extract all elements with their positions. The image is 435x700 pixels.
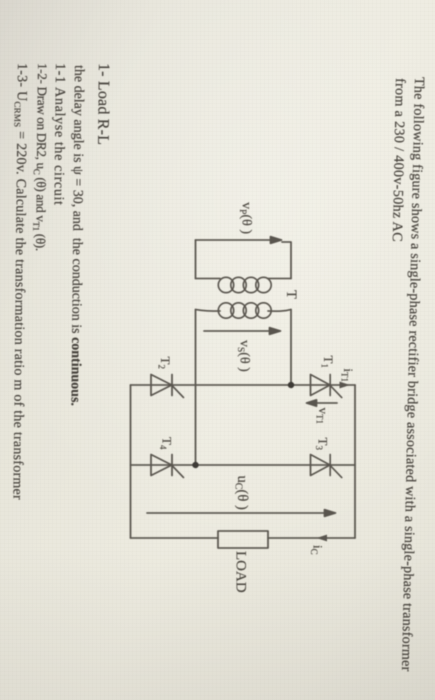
- wire bridge left leg: [131, 384, 356, 386]
- secondary winding vertical wire: [268, 310, 291, 312]
- wire primary top: [282, 242, 291, 279]
- wire bridge bottom rail: [130, 385, 132, 538]
- svg-text:T: T: [283, 290, 299, 299]
- item 1-1: [51, 63, 67, 206]
- svg-text:uC(θ ): uC(θ ): [233, 476, 251, 510]
- arrow ic: [317, 535, 328, 542]
- arrow vT1: [307, 400, 338, 406]
- item 1-2: [34, 63, 51, 251]
- resistor LOAD box: [218, 531, 268, 548]
- wire bridge middle leg: [131, 464, 356, 466]
- arrow iT1: [340, 382, 351, 389]
- wire secondary bottom to node B: [195, 310, 197, 466]
- wire secondary top to node A: [290, 310, 292, 386]
- paragraph line 2: [389, 78, 407, 242]
- svg-text:vP(θ ): vP(θ ): [237, 202, 254, 234]
- arrow uc: [147, 510, 336, 517]
- node A junction dot: [288, 382, 294, 388]
- arrow vs: [204, 328, 281, 335]
- item 1-3: [10, 63, 30, 500]
- svg-text:vS(θ ): vS(θ ): [235, 340, 252, 372]
- svg-text:T1: T1: [320, 356, 337, 368]
- svg-text:vT1: vT1: [315, 408, 332, 425]
- wire bridge top rail: [354, 385, 356, 538]
- thyristor T3: [311, 455, 342, 478]
- wire primary bottom: [195, 240, 197, 279]
- inductor primary coil: [218, 277, 271, 292]
- svg-text:T3: T3: [314, 438, 331, 451]
- primary winding vertical wire: [268, 278, 291, 280]
- svg-text:iC: iC: [309, 545, 326, 555]
- svg-text:LOAD: LOAD: [233, 551, 249, 593]
- arrow vp: [196, 237, 282, 244]
- svg-text:T2: T2: [157, 357, 174, 369]
- paragraph line 1: [399, 77, 427, 672]
- inductor secondary coil: [218, 303, 271, 318]
- svg-text:T4: T4: [158, 437, 175, 450]
- node B junction dot: [192, 462, 198, 468]
- wire load branch: [268, 537, 355, 539]
- thyristor T2: [151, 375, 184, 398]
- delay angle line: [68, 64, 87, 405]
- thyristor T4: [151, 455, 184, 478]
- heading 1- Load R-L: [95, 63, 111, 145]
- svg-text:iT1: iT1: [340, 368, 357, 382]
- thyristor T1: [311, 375, 342, 398]
